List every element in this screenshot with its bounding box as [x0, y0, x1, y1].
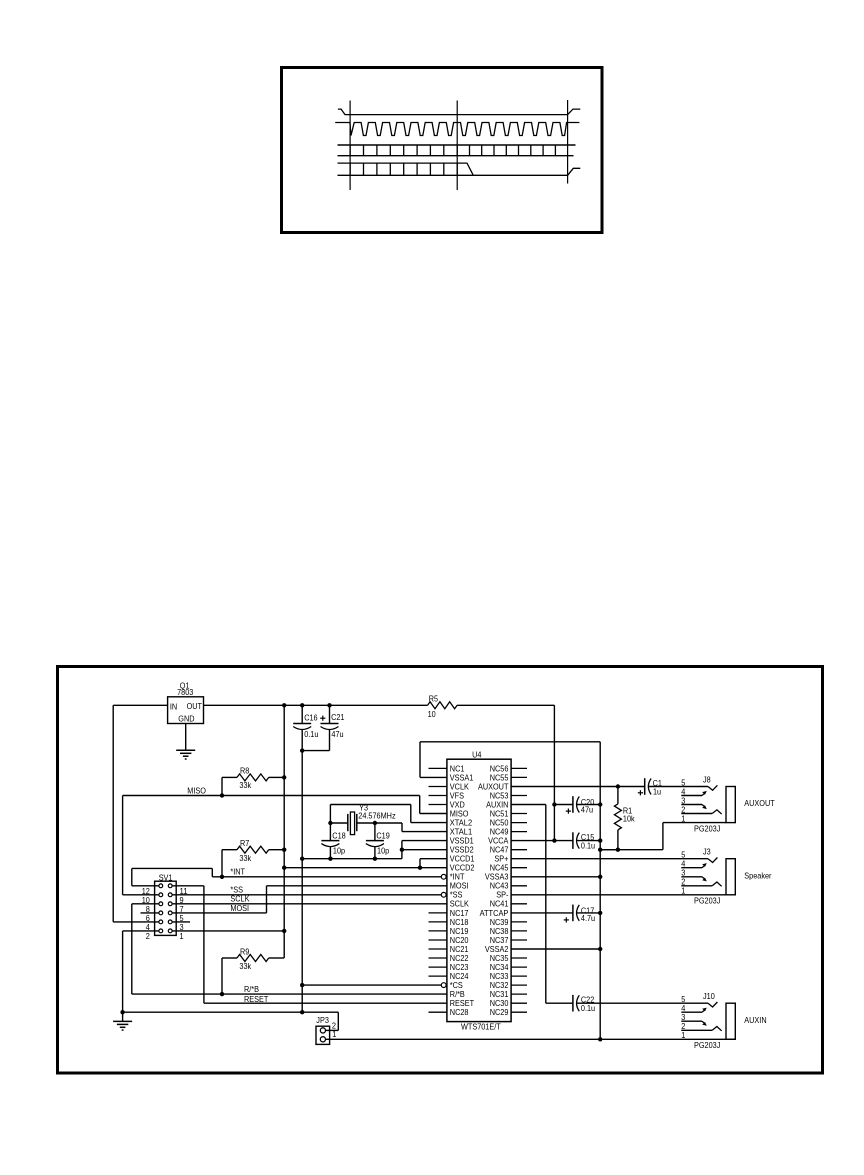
- wire SV1 pin 11 to RESET: [172, 885, 204, 887]
- svg-text:0.1u: 0.1u: [304, 730, 319, 739]
- wire SV1 pin 1 to 3.3V bus: [172, 930, 284, 932]
- middle ground bus: [301, 751, 303, 1013]
- svg-text:NC37: NC37: [490, 936, 509, 945]
- svg-text:SCLK: SCLK: [450, 900, 470, 909]
- svg-text:VCCD2: VCCD2: [450, 864, 475, 873]
- capacitor C1 1u polarized: [644, 778, 646, 795]
- svg-text:NC24: NC24: [450, 972, 469, 981]
- capacitor C16 0.1u: [300, 703, 304, 707]
- svg-text:SCLK: SCLK: [230, 895, 250, 904]
- svg-text:NC20: NC20: [450, 936, 469, 945]
- svg-text:5: 5: [681, 851, 685, 860]
- svg-text:NC39: NC39: [490, 918, 509, 927]
- svg-text:XTAL1: XTAL1: [450, 828, 473, 837]
- svg-text:1: 1: [180, 932, 184, 941]
- svg-text:WTS701E/T: WTS701E/T: [461, 1022, 501, 1031]
- svg-text:IN: IN: [170, 702, 177, 711]
- svg-text:VSSA3: VSSA3: [485, 873, 509, 882]
- timing gridline t0: [349, 101, 351, 191]
- timing signal SCLK waveform: [335, 123, 579, 136]
- svg-text:MOSI: MOSI: [230, 904, 249, 913]
- svg-text:NC23: NC23: [450, 963, 469, 972]
- svg-text:R/*B: R/*B: [244, 985, 259, 994]
- svg-text:2: 2: [146, 932, 150, 941]
- svg-text:VCCD1: VCCD1: [450, 855, 475, 864]
- capacitor C22 0.1u: [572, 995, 574, 1012]
- svg-text:NC17: NC17: [450, 909, 469, 918]
- svg-text:NC38: NC38: [490, 927, 509, 936]
- svg-text:XTAL2: XTAL2: [450, 819, 473, 828]
- svg-text:5: 5: [681, 778, 685, 787]
- svg-text:6: 6: [146, 914, 150, 923]
- svg-text:NC18: NC18: [450, 918, 469, 927]
- voltage regulator Q1 7803: [168, 697, 204, 724]
- svg-text:NC50: NC50: [490, 819, 509, 828]
- svg-text:R9: R9: [240, 947, 250, 956]
- svg-text:0.1u: 0.1u: [581, 1004, 596, 1013]
- timing data bus MISO rails: [338, 163, 474, 175]
- svg-text:PG203J: PG203J: [694, 824, 720, 833]
- wire Q1 input from header: [113, 704, 167, 706]
- svg-text:*SS: *SS: [230, 886, 243, 895]
- svg-text:10p: 10p: [333, 847, 346, 856]
- svg-text:MOSI: MOSI: [450, 882, 469, 891]
- svg-text:VCCA: VCCA: [488, 837, 509, 846]
- wire header pin 12 to *INT: [132, 885, 159, 887]
- svg-text:AUXOUT: AUXOUT: [744, 799, 774, 808]
- svg-text:PG203J: PG203J: [694, 897, 720, 906]
- svg-text:5: 5: [681, 995, 685, 1004]
- svg-text:C19: C19: [376, 831, 390, 840]
- svg-text:NC49: NC49: [490, 828, 509, 837]
- ground symbol bottom-left: [113, 1020, 132, 1022]
- svg-text:MISO: MISO: [450, 809, 469, 818]
- schematic frame: [58, 667, 823, 1074]
- U4 unconnected right pin stubs: [511, 768, 527, 1012]
- svg-text:Speaker: Speaker: [744, 872, 771, 881]
- timing diagram frame: [282, 68, 603, 233]
- wire MISO to header SV1 pin 10: [122, 796, 124, 895]
- svg-text:GND: GND: [178, 715, 194, 724]
- svg-text:NC41: NC41: [490, 900, 509, 909]
- net AUXIN: [511, 804, 546, 806]
- wire JP3 pin1 to jack J10 sleeve: [326, 1038, 736, 1040]
- svg-text:NC35: NC35: [490, 954, 509, 963]
- svg-text:C18: C18: [332, 831, 346, 840]
- svg-text:SP+: SP+: [494, 855, 508, 864]
- svg-text:AUXOUT: AUXOUT: [478, 782, 508, 791]
- svg-text:4.7u: 4.7u: [581, 914, 596, 923]
- svg-text:NC47: NC47: [490, 846, 509, 855]
- svg-text:7803: 7803: [177, 688, 194, 697]
- svg-text:R7: R7: [240, 839, 250, 848]
- wire VCCD2 to 3.3V bus: [284, 867, 447, 869]
- resistor R1 10k: [617, 787, 619, 804]
- timing data bus MISO cell dividers: [350, 163, 457, 175]
- svg-text:VCLK: VCLK: [450, 782, 470, 791]
- svg-text:NC30: NC30: [490, 999, 509, 1008]
- svg-text:R5: R5: [429, 694, 439, 703]
- capacitor C15 0.1u: [511, 840, 573, 842]
- net VSSA2 to ground bus: [511, 948, 600, 950]
- svg-text:NC32: NC32: [490, 981, 509, 990]
- wire crystal caps to ground: [302, 858, 402, 860]
- svg-text:47u: 47u: [331, 730, 344, 739]
- net SP-: [511, 894, 726, 896]
- svg-text:ATTCAP: ATTCAP: [480, 909, 509, 918]
- resistor R5 10: [428, 702, 458, 709]
- svg-text:1: 1: [681, 887, 685, 896]
- svg-text:1: 1: [681, 814, 685, 823]
- net AUXOUT: [511, 786, 645, 788]
- svg-text:33k: 33k: [239, 781, 252, 790]
- svg-text:JP3: JP3: [316, 1016, 329, 1025]
- svg-text:NC51: NC51: [490, 809, 509, 818]
- net SP+: [511, 858, 708, 860]
- svg-text:12: 12: [142, 887, 150, 896]
- wire C15 ground to R1 bottom: [600, 849, 618, 851]
- svg-text:VXD: VXD: [450, 800, 465, 809]
- svg-text:SP-: SP-: [496, 891, 508, 900]
- svg-text:NC28: NC28: [450, 1008, 469, 1017]
- ground below Q1: [185, 724, 187, 751]
- svg-text:NC55: NC55: [490, 773, 509, 782]
- svg-text:*SS: *SS: [450, 891, 463, 900]
- svg-text:NC21: NC21: [450, 945, 469, 954]
- SV1 pin 6 stub: [141, 912, 159, 914]
- svg-text:33k: 33k: [239, 962, 252, 971]
- wire VSSA1 to ground bus: [420, 776, 447, 778]
- capacitor C17 4.7u polarized on ATTCAP: [511, 912, 573, 914]
- svg-text:NC31: NC31: [490, 990, 509, 999]
- svg-text:NC22: NC22: [450, 954, 469, 963]
- timing gridline t1: [456, 101, 458, 191]
- right ground bus: [599, 742, 601, 1040]
- svg-text:NC19: NC19: [450, 927, 469, 936]
- svg-text:J3: J3: [703, 848, 711, 857]
- svg-text:VSSD1: VSSD1: [450, 837, 474, 846]
- svg-text:47u: 47u: [581, 806, 594, 815]
- svg-text:NC33: NC33: [490, 972, 509, 981]
- wire Q1 output 3.3V rail: [204, 704, 428, 706]
- svg-text:24.576MHz: 24.576MHz: [358, 812, 395, 821]
- svg-text:AUXIN: AUXIN: [744, 1016, 766, 1025]
- svg-text:VSSA2: VSSA2: [485, 945, 509, 954]
- wire SV1 pin 2 to ground: [123, 930, 159, 932]
- svg-text:NC1: NC1: [450, 764, 465, 773]
- svg-text:OUT: OUT: [187, 702, 202, 711]
- wire VCCD1: [420, 858, 447, 860]
- wire R5 to VCCA: [457, 704, 554, 706]
- ground wire bottom: [123, 1011, 339, 1013]
- svg-text:VSSA1: VSSA1: [450, 773, 474, 782]
- resistor R8 33k: [237, 774, 269, 781]
- timing gridline t2: [567, 100, 569, 184]
- svg-text:10k: 10k: [623, 815, 636, 824]
- svg-text:*INT: *INT: [230, 868, 245, 877]
- wire ground to jack J8 sleeve: [600, 849, 663, 851]
- svg-text:NC34: NC34: [490, 963, 509, 972]
- resistor R9 33k: [237, 955, 269, 962]
- svg-text:NC45: NC45: [490, 864, 509, 873]
- svg-text:1: 1: [332, 1030, 336, 1039]
- svg-text:10: 10: [428, 710, 436, 719]
- svg-text:1u: 1u: [653, 788, 661, 797]
- svg-text:C21: C21: [331, 713, 345, 722]
- svg-text:NC56: NC56: [490, 764, 509, 773]
- svg-text:R8: R8: [240, 767, 250, 776]
- svg-text:2: 2: [332, 1021, 336, 1030]
- svg-text:J8: J8: [703, 776, 711, 785]
- svg-text:C16: C16: [304, 713, 318, 722]
- svg-text:NC43: NC43: [490, 882, 509, 891]
- resistor R7 33k: [237, 846, 269, 853]
- svg-text:PG203J: PG203J: [694, 1041, 720, 1050]
- wire SV1 pin 8 to R/*B: [132, 903, 159, 905]
- 3.3V bus: [282, 703, 286, 707]
- timing data bus MOSI rails: [338, 144, 576, 146]
- svg-text:NC29: NC29: [490, 1008, 509, 1017]
- svg-text:0.1u: 0.1u: [581, 841, 596, 850]
- capacitor C20 47u polarized: [552, 802, 556, 806]
- svg-text:VSSD2: VSSD2: [450, 846, 474, 855]
- capacitor C21 47u polarized: [327, 703, 331, 707]
- svg-text:MISO: MISO: [187, 787, 206, 796]
- svg-text:RESET: RESET: [450, 999, 474, 1008]
- timing signal FS waveform: [338, 109, 580, 115]
- svg-text:*CS: *CS: [450, 981, 463, 990]
- svg-text:U4: U4: [472, 751, 482, 760]
- timing data bus MOSI cell dividers: [350, 145, 555, 156]
- svg-text:VFS: VFS: [450, 791, 465, 800]
- svg-text:NC53: NC53: [490, 791, 509, 800]
- svg-text:*INT: *INT: [450, 873, 465, 882]
- wire JP3 pin2 to ground: [337, 1012, 339, 1030]
- SV1 pin 3 stub: [172, 921, 190, 923]
- svg-text:RESET: RESET: [244, 995, 268, 1004]
- svg-text:J10: J10: [703, 992, 715, 1001]
- net VSSA3 to ground bus: [511, 876, 600, 878]
- svg-text:10p: 10p: [377, 847, 390, 856]
- U4 unconnected left pin stubs: [429, 768, 447, 1012]
- svg-text:33k: 33k: [239, 854, 252, 863]
- net *CS tied to ground: [302, 984, 441, 986]
- svg-text:AUXIN: AUXIN: [486, 800, 508, 809]
- svg-text:R/*B: R/*B: [450, 990, 465, 999]
